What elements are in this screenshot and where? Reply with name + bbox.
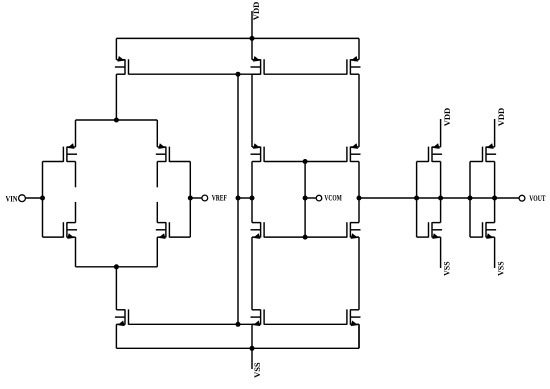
transistor M1 (PMOS, top row left) (115, 56, 129, 75)
svg-text:VSS: VSS (442, 261, 451, 276)
wire M10 source to M13 drain (251, 237, 253, 310)
wire M9 drain to M11 drain (358, 162, 360, 223)
wire bottom gate line right (M13 gate to M14 gate) (264, 323, 347, 325)
wire M15 drain to output node (440, 162, 442, 199)
junction VDD rail / M2 source (250, 36, 255, 41)
transistor M6 (NMOS, input pair left) (63, 222, 77, 239)
wire M16 drain to output node (440, 198, 442, 223)
transistor M18 (NMOS, inverter 2) (483, 222, 497, 239)
transistor M14 (NMOS, bottom row right) (347, 309, 361, 326)
junction bias column / bottom gate line (236, 322, 241, 327)
transistor M3 (PMOS, top row right) (347, 56, 361, 75)
wire VIN terminal lead (25, 197, 42, 199)
wire bottom gate line left (M12 gate to M13) (129, 323, 261, 325)
wire bias link to latch column (238, 197, 252, 199)
wire inverter2 input column (469, 162, 471, 238)
wire rail to M3 source (358, 38, 360, 59)
junction VREF column (188, 196, 193, 201)
wire M15 gate lead (417, 161, 429, 163)
wire M7 drain stub (156, 202, 158, 223)
wire M2 drain to M8 source (251, 74, 253, 147)
wire top tap to M5 source (156, 120, 158, 147)
power VDD stub (inverter 2) (494, 119, 496, 147)
transistor M8 (PMOS, latch left) (251, 143, 265, 162)
svg-text:VSS: VSS (496, 261, 505, 276)
wire VIN gate column (42, 162, 44, 238)
power VSS stub (inverter 1) (440, 237, 442, 268)
wire M7 source to bottom tap (156, 237, 158, 267)
wire output signal line (359, 197, 519, 199)
wire M8 drain to M10 drain (251, 162, 253, 223)
wire inverter1 input column (416, 162, 418, 238)
wire VSS rail (116, 347, 359, 349)
svg-text:VDD: VDD (443, 108, 452, 127)
transistor M12 (NMOS, bottom row left) (115, 309, 129, 326)
wire VREF gate column (189, 162, 191, 238)
junction VIN column (40, 196, 45, 201)
power VDD stub (inverter 1) (440, 119, 442, 147)
transistor M10 (NMOS, latch left) (251, 222, 265, 239)
transistor M4 (PMOS, input pair left) (63, 143, 77, 162)
transistor M15 (PMOS, inverter 1) (429, 143, 443, 162)
wire M6 source to bottom tap (75, 237, 77, 267)
junction M1 drain / top tap (114, 118, 119, 123)
transistor M17 (PMOS, inverter 2) (483, 143, 497, 162)
terminal VOUT (519, 195, 525, 201)
svg-text:VDD: VDD (252, 1, 261, 20)
wire M1 drain to input-pair top tap (115, 74, 117, 120)
wire M5 gate lead (169, 161, 190, 163)
transistor M9 (PMOS, latch right) (347, 143, 361, 162)
wire M12 source to VSS rail (115, 324, 117, 348)
wire M7 gate lead (169, 236, 190, 238)
wire center column (304, 162, 306, 238)
wire M14 source to VSS rail (358, 324, 360, 348)
wire VCOM terminal lead (305, 197, 316, 199)
power VSS stub (inverter 2) (494, 237, 496, 268)
wire M4 gate lead (43, 161, 64, 163)
junction output line / inverter2 input (468, 196, 473, 201)
wire M17 gate lead (470, 161, 483, 163)
svg-text:VOUT: VOUT (529, 194, 546, 203)
wire M6 gate lead (43, 236, 64, 238)
wire latch NMOS gate line (264, 236, 347, 238)
wire M11 source to M14 drain (358, 237, 360, 310)
wire VSS rail right riser (358, 324, 360, 348)
wire M18 drain to output node (494, 198, 496, 223)
transistor M16 (NMOS, inverter 1) (429, 222, 443, 239)
junction center column / VCOM lead (303, 196, 308, 201)
junction bottom tap / tail column (114, 264, 119, 269)
svg-text:VIN: VIN (6, 194, 18, 203)
wire VDD rail (116, 37, 359, 39)
wire M17 drain to output node (494, 162, 496, 199)
svg-text:VCOM: VCOM (324, 193, 342, 202)
wire M4 drain stub (75, 162, 77, 188)
junction bias column / mid link (236, 196, 241, 201)
wire M3 drain to M9 source (358, 74, 360, 147)
wire VREF terminal lead (190, 197, 202, 199)
junction latch left / mid link (250, 196, 255, 201)
wire M18 gate lead (470, 236, 483, 238)
wire top gate line right (M2 gate to M3 gate) (264, 73, 347, 75)
wire top gate line left (M1 gate to M2) (129, 73, 261, 75)
svg-text:VDD: VDD (497, 108, 506, 127)
wire M5 drain stub (156, 162, 158, 188)
wire M13 source to VSS rail (251, 324, 253, 348)
wire input ring bottom tap (76, 266, 158, 268)
transistor M5 (PMOS, input pair right) (156, 143, 170, 162)
power VSS terminal stub (251, 348, 253, 369)
junction output line / inverter1 input (414, 196, 419, 201)
junction VSS rail / VSS stub (250, 346, 255, 351)
transistor M2 (PMOS, top row middle) (251, 56, 265, 75)
wire bottom tap to M12 drain (115, 267, 117, 310)
wire latch PMOS gate line (264, 161, 347, 163)
terminal VREF (202, 195, 208, 201)
transistor M7 (NMOS, input pair right) (156, 222, 170, 239)
wire M6 drain stub (75, 202, 77, 223)
wire rail to M2 source (251, 38, 253, 59)
junction PMOS gate line / center column (303, 159, 308, 164)
junction latch right / output line (357, 196, 362, 201)
power VDD terminal stub (251, 11, 253, 38)
junction output line / inverter2 output (492, 196, 497, 201)
wire M16 gate lead (417, 236, 429, 238)
transistor M13 (NMOS, bottom row middle) (251, 309, 265, 326)
wire top tap to M4 source (75, 120, 77, 147)
junction output line / inverter1 output (438, 196, 443, 201)
terminal VIN (19, 195, 26, 202)
transistor M11 (NMOS, latch right) (347, 222, 361, 239)
wire rail to M1 source (115, 38, 117, 59)
wire bias column (237, 74, 239, 324)
junction NMOS gate line / center column (303, 235, 308, 240)
svg-text:VREF: VREF (212, 194, 227, 203)
junction top gate line / bias column (236, 72, 241, 77)
wire input ring top tap (76, 119, 158, 121)
terminal VCOM (316, 195, 322, 201)
svg-text:VSS: VSS (253, 362, 262, 378)
